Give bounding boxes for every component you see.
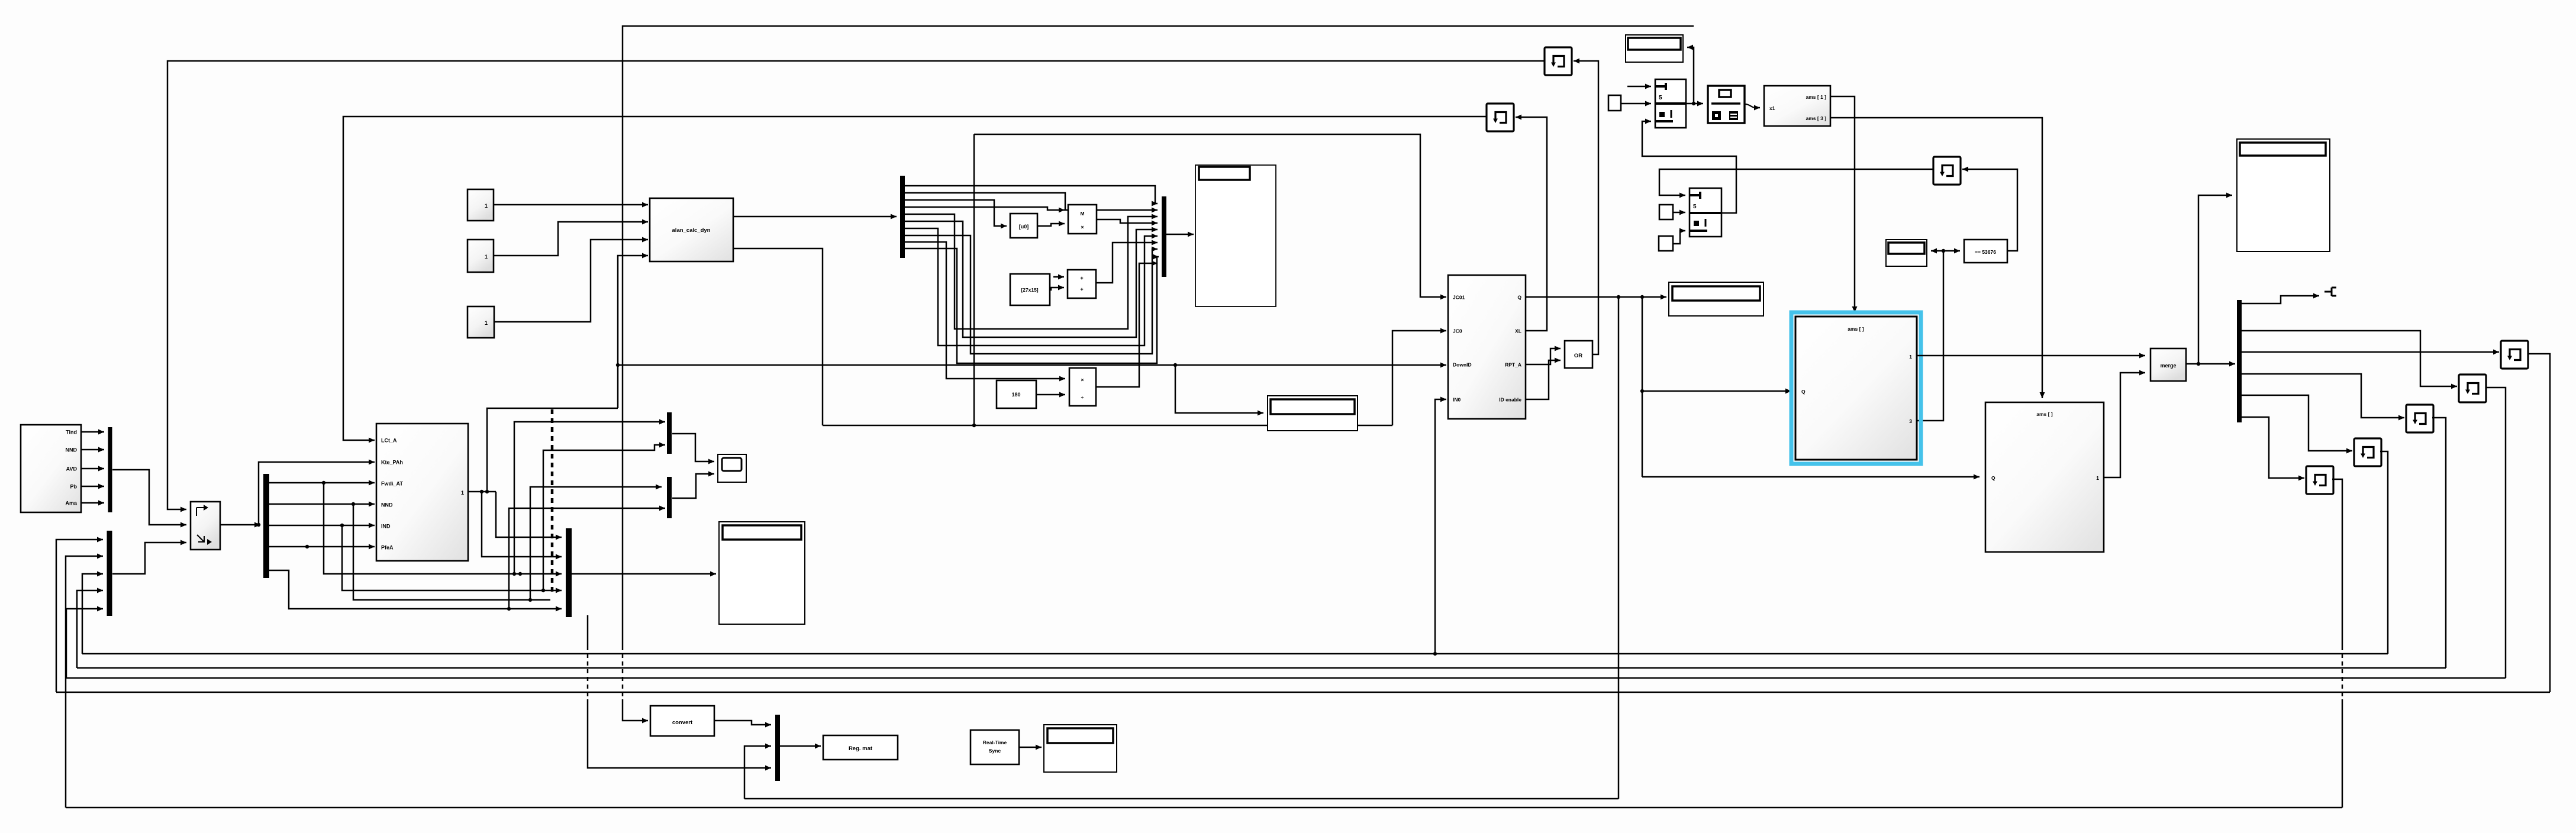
wire: row y1345 from mux3-in2 riser to Q tap at x2735 [744, 798, 1619, 800]
svg-text:RPT_A: RPT_A [1505, 362, 1521, 368]
mux M1129a [667, 412, 672, 454]
wire: [u0] output to product M in2 [1037, 224, 1065, 226]
wire: demux row9 to divide block in1 [905, 242, 1065, 379]
svg-text:M: M [1080, 211, 1084, 217]
wire: demux out4 to delay Dc [2242, 374, 2404, 418]
unit delay Z1 [1545, 47, 1572, 75]
svg-text:== 53676: == 53676 [1975, 249, 1996, 255]
wire: mux M959 output to display D6 [572, 573, 716, 575]
svg-text:DownID: DownID [1453, 362, 1472, 368]
wire: OR output up to unit delay Z1 (outer top loop) [1574, 61, 1598, 354]
wire: mux3 output to Reg.mat [780, 745, 821, 747]
wire: C1 to alan_calc_dyn input1 [494, 204, 648, 206]
wire: unit delay Z1 output left and down to selector input 1 (outer loop) [167, 61, 1545, 509]
display D1 [1626, 35, 1683, 62]
wire: mux M1129b output to scope SCP [672, 474, 714, 498]
wire: SRC port Tind to mux1 [81, 431, 104, 433]
subsystem B1 (main plant block) [376, 424, 468, 561]
unit delay De [2306, 466, 2333, 494]
wire: demux out3 to delay Da [2242, 351, 2499, 353]
wire: mux M1966 output to scope S1 [1166, 234, 1194, 235]
mux M2 [107, 531, 112, 616]
svg-text:×: × [1081, 377, 1084, 383]
mux M1129b [667, 477, 672, 518]
svg-text:Tind: Tind [66, 430, 77, 435]
wire: branch up down into display D1 right side [1687, 47, 1694, 104]
wire: tap x547 from Fwd row to mux M959 input 3 [324, 483, 562, 574]
wire: demux row6 S-route to mux M1966 in5 [905, 221, 1158, 337]
wire: CSQ1 to switch1 input 2 [1621, 103, 1651, 105]
wire: tap x2775 down to cyan Q and ams2 Q [1642, 297, 1643, 477]
wire: tap x597 from NND row to dashed bus bar [353, 504, 550, 600]
wire: Dc return to bus row y1129 [2432, 418, 2446, 668]
wire: De return to bottom row y1365 [2332, 479, 2342, 646]
wire: demux row8 S-route to mux M1966 in8 [905, 235, 1158, 354]
selector block [u0] [1010, 214, 1037, 238]
wire: SRC port AVD to mux1 [81, 468, 104, 470]
constant C1 value 1 [468, 189, 494, 221]
wire: Da return to bus row y1170 [2527, 354, 2550, 692]
svg-text:Fwd\_AT: Fwd\_AT [381, 481, 403, 487]
scope SCP (small scope icon) [718, 454, 746, 482]
svg-text:Real-Time: Real-Time [983, 740, 1007, 745]
wire: 180 to divide in2 [1036, 394, 1065, 396]
wire: riser x896 to mux M1129b input 1 [530, 487, 662, 600]
wire: compare output up to Z3 input [1962, 169, 2017, 251]
wire: alan_calc_dyn out1 to demux D1525 [733, 216, 897, 218]
wire: x1646 riser from row719 to row227 [973, 134, 975, 425]
wire: left riser x139 to mux2 input 3 [82, 574, 103, 654]
conversion block CONVERT [650, 706, 714, 736]
svg-text:[u0]: [u0] [1019, 224, 1029, 230]
sync block RTS Real-Time Sync [971, 730, 1019, 764]
switch block SW1 [1655, 79, 1686, 128]
wire: demux out6 to delay De [2242, 417, 2304, 478]
wire: bottom row y1365 from mux2-in2 riser to delay De return [66, 807, 2342, 809]
wire: demux D455 out5 down to mux M959 input 5 [269, 570, 562, 609]
svg-text:Q: Q [1517, 295, 1521, 301]
wire: demux D455 out4 to B1 PfeA input [269, 546, 375, 548]
wire: demux row7 S-route to mux M1966 in6 [905, 228, 1158, 346]
svg-text:Ama: Ama [65, 501, 78, 506]
wire: mux2 output up to selector input 3 [112, 543, 186, 574]
svg-text:180: 180 [1011, 392, 1020, 398]
svg-text:Q: Q [1801, 389, 1806, 395]
wire: sum output up to mux M1966 in7 [1096, 243, 1158, 283]
display D6 (large display window) [719, 522, 805, 624]
unit delay Z3 [1933, 157, 1961, 185]
wire: demux D455 out3 to B1 IND input [269, 525, 375, 527]
wire: CYAN out1 to merge input 1 [1917, 355, 2145, 357]
divide block DIV [1069, 368, 1096, 406]
constant C3 value 1 [468, 306, 494, 338]
wire: demux row1 to mux M1966 in1 [905, 186, 1158, 204]
wire: demux row5 S-route to mux M1966 in3 [905, 214, 1158, 329]
svg-text:ams [ 1 ]: ams [ 1 ] [1806, 94, 1827, 100]
svg-text:AVD: AVD [66, 466, 78, 472]
demux D3781 [2237, 300, 2242, 422]
wire: mux1 output down to selector input 2 [112, 470, 186, 525]
wire: merge output to demux D3781 and branch up to scope S2 [2186, 363, 2235, 365]
wire: CSQ2 to switch2 input 2 [1673, 212, 1685, 214]
compare block CMP == 53676 [1964, 240, 2007, 263]
svg-text:Q: Q [1991, 475, 1995, 481]
wire: Db return to bus row y1146 [2485, 388, 2506, 678]
wire: divide output up to mux M1966 in10 [1096, 263, 1158, 387]
wire: row 719 from alan out2 riser to JC0 riser [823, 425, 1392, 427]
wire: stub into sum in1 [1053, 276, 1064, 278]
wire: stub to switch1 input 1 [1627, 86, 1651, 88]
subsystem JK (ID state machine block) [1448, 275, 1526, 419]
svg-text:Pb: Pb [70, 484, 77, 490]
wire: AMS2 out up to merge input 2 [2104, 373, 2145, 477]
merge block MRG [2151, 348, 2186, 381]
wire: mux M1129a output to scope SCP [672, 434, 714, 461]
display D2 [1669, 282, 1763, 316]
svg-text:5: 5 [1693, 204, 1697, 210]
display D3 [1886, 240, 1927, 266]
mux M1966 [1162, 196, 1166, 277]
wire: switch2 output up to switch1 input 3 [1642, 121, 1736, 213]
svg-text:ID enable: ID enable [1499, 397, 1521, 403]
scope S2 (scope window) [2237, 139, 2330, 251]
subsystem SRC (source outport block) [21, 425, 81, 512]
demux D1525 [900, 176, 905, 258]
selector block SEL [191, 502, 220, 550]
wire: demux row2 to mux M1966 in2 [905, 193, 1158, 210]
svg-text:convert: convert [672, 719, 693, 726]
wire: Z3 output left and down to switch2 input1 [1659, 169, 1933, 195]
wire: C3 to alan_calc_dyn input3 [494, 240, 648, 322]
wire: demux D455 out1 to B1 Fwd input [269, 482, 375, 484]
subsystem SUB1 (ams splitter) [1764, 86, 1830, 126]
wire: demux out2 to delay Db [2242, 331, 2457, 386]
logic block OR [1565, 341, 1592, 368]
wire: branch into display D3 (right side input) [1931, 250, 1943, 252]
wire: unit delay Z2 output left, down to LCt_A input (inner loop) [343, 117, 1487, 440]
wire: Dd return to bus row y1105 [2380, 451, 2388, 654]
svg-text:Kte_PAh: Kte_PAh [381, 460, 403, 466]
math block M (product) [1068, 205, 1097, 234]
wire: Q output row to display D2 with taps [1526, 296, 1666, 298]
wire: product M output to mux M1966 in4 [1097, 219, 1158, 223]
svg-text:ams [ 3 ]: ams [ 3 ] [1806, 115, 1827, 121]
wire: left riser x95 to mux2 input 1 [56, 540, 103, 692]
wire: demux row3 to selector [u0] [905, 200, 1007, 226]
wire: SUB1 out2 across and down to AMS2 top input [1830, 118, 2042, 398]
wire: demux D455 out2 to B1 NND input [269, 503, 375, 505]
wire: x2353 riser up to JC0 input [1392, 331, 1446, 425]
wire: SRC port Pb to mux1 [81, 486, 104, 487]
svg-text:+: + [1080, 286, 1083, 292]
wire: ID enable to OR input 2 [1526, 360, 1561, 399]
unit delay Dd [2354, 438, 2381, 466]
sum block SUM [1068, 270, 1096, 298]
wire: branch to CYAN subsystem Q input [1642, 390, 1791, 392]
svg-text:1: 1 [485, 203, 488, 209]
constant square CSQ3 [1659, 236, 1673, 251]
subsystem alan_calc_dyn [650, 198, 733, 261]
wire: B1 output 1 net with risers [468, 491, 496, 493]
mux M3 [775, 715, 780, 781]
svg-text:3: 3 [1909, 418, 1912, 424]
unit delay Da [2501, 341, 2528, 369]
svg-text:IND: IND [381, 524, 391, 529]
wire: left riser x111 to mux2 input 2 [66, 556, 103, 808]
wire: branch into compare block [1943, 250, 1960, 252]
wire: C2 to alan_calc_dyn input2 [494, 222, 648, 256]
svg-text:ams [ ]: ams [ ] [2036, 411, 2053, 417]
wire: SRC port Ama to mux1 [81, 502, 104, 504]
svg-text:PfeA: PfeA [381, 545, 394, 551]
svg-text:1: 1 [485, 254, 488, 260]
wire: riser x1258 from row1345 to mux3 in2 [744, 746, 771, 799]
svg-text:alan_calc_dyn: alan_calc_dyn [672, 227, 711, 234]
unit delay Db [2459, 374, 2486, 402]
display D5 [1044, 725, 1117, 772]
svg-text:merge: merge [2160, 363, 2176, 369]
wire: riser x814 down to mux M959 input 2 [482, 492, 562, 557]
wire: demux row4 to product M in1 [905, 207, 1065, 210]
chart block CH1 [1708, 86, 1745, 123]
subsystem AMS2 ams[ ] [1985, 402, 2104, 552]
wire: riser x823 up to row690 joining DownID net [487, 408, 618, 492]
svg-text:OR: OR [1574, 353, 1582, 359]
wire: bus row y1146 from mux2-in5 riser to delay Db return [66, 677, 2506, 679]
wire: riser x838 down to mux M959 input 1 [496, 492, 562, 537]
dashed group bar [551, 409, 554, 594]
wire: RTS output to display D5 [1019, 747, 1042, 748]
display D4 [1268, 396, 1358, 431]
terminator TRM [2324, 288, 2336, 296]
constant 180 [997, 380, 1036, 408]
wire: riser x1044 from row690 up to alan_calc_dyn input 4 [618, 256, 648, 408]
svg-text:IN0: IN0 [1453, 397, 1461, 403]
wire: XL output up to unit delay Z2 [1516, 117, 1547, 331]
unit delay Z2 [1487, 104, 1514, 131]
wire: alan_calc_dyn out2 to x1390 riser [733, 248, 823, 425]
svg-text:XL: XL [1515, 328, 1521, 334]
wire: row 227 loop from x1646 to JC01 input [974, 134, 1446, 297]
wire: bus row y1170 from mux2-in1 riser to delay Da return [56, 692, 2550, 693]
mux M959 [566, 528, 572, 617]
constant square CSQ1 [1608, 95, 1621, 111]
wire: DownID row from riser x1044 to JK DownID [618, 364, 1446, 366]
svg-text:÷: ÷ [1081, 394, 1084, 400]
wire: left riser x130 to mux2 input 4 [77, 590, 103, 668]
constant C2 value 1 [468, 240, 494, 272]
wire: chart output squiggle to subsystem SUB1 x1 [1745, 104, 1756, 108]
svg-text:Reg. mat: Reg. mat [849, 745, 873, 752]
wire: bus row y1129 from mux2-in4 riser to delay Dc return [77, 667, 2446, 669]
wire: CYAN out3 riser up to display D3 / compare junction [1917, 251, 1943, 421]
svg-text:1: 1 [461, 490, 464, 496]
wire: [27x15] output to sum in2 [1050, 288, 1064, 290]
wire: riser x918 to mux M1129a input 2 [543, 445, 665, 590]
wire: selector output to demux D455, branch up to Kte_PAh [220, 524, 260, 526]
wire: demux out1 up to terminator [2242, 296, 2319, 304]
svg-text:NND: NND [381, 502, 393, 508]
svg-text:+: + [1080, 275, 1083, 281]
svg-text:JC0: JC0 [1453, 328, 1462, 334]
wire: convert output to mux3 input 1 [714, 721, 771, 725]
svg-text:x1: x1 [1769, 105, 1775, 111]
wire: riser x2425 from bus row to JK IN0 [1435, 399, 1446, 654]
wire: switch1 output net top row to long vertical x1052 down to convert [623, 26, 1694, 646]
demux D455 [263, 474, 269, 578]
wire: CSQ3 to switch2 input 3 [1673, 231, 1685, 244]
svg-text:1: 1 [485, 320, 488, 326]
wire: left riser x112 to mux2 input 5 [66, 609, 103, 678]
wire: riser x869 to mux M1129a input 1 [514, 422, 665, 574]
wire: SUB1 out1 down to CYAN top input [1830, 96, 1855, 312]
wire: demux out5 to delay Dd [2242, 395, 2352, 451]
svg-text:NND: NND [66, 447, 78, 453]
wire: RPT_A to OR input 1 [1526, 348, 1561, 364]
svg-text:[27x15]: [27x15] [1021, 287, 1038, 293]
to-file block REG Reg.mat [823, 735, 898, 760]
wire: row 806 to AMS2 subsystem Q input [1642, 476, 1979, 478]
svg-text:5: 5 [1659, 95, 1662, 101]
switch block SW2 [1690, 188, 1721, 237]
svg-text:JC01: JC01 [1453, 295, 1465, 301]
wire: tap x578 from IND row to mux M959 input 4 [342, 525, 562, 590]
constant square CSQ2 [1659, 205, 1673, 219]
constant [27x15] [1010, 274, 1050, 305]
selection highlight around CYAN subsystem [1791, 312, 1921, 464]
svg-text:Sync: Sync [989, 748, 1001, 754]
svg-text:1: 1 [2096, 475, 2099, 481]
svg-text:LCt_A: LCt_A [381, 438, 397, 444]
mux M1 [108, 427, 112, 512]
svg-text:×: × [1081, 224, 1084, 230]
scope S1 (scope window) [1195, 165, 1276, 306]
unit delay Dc [2406, 405, 2433, 432]
subsystem CYAN ams[ ] (selected) [1795, 317, 1917, 460]
wire: SRC port NND to mux1 [81, 449, 104, 451]
wire: riser x860 to mux M1129b input 2 [509, 508, 665, 609]
wire: branch x1986 down to Display D4 [1175, 365, 1263, 413]
wire: dashed riser x993 to mux3 input 3 [587, 615, 589, 646]
wire: bus row y1105 from mux2-in3 riser to delay Dd return [82, 653, 2388, 655]
wire: demux row10 S-route to mux M1966 in9 [905, 248, 1159, 363]
wire: switch1 output to chart block with branches [1686, 103, 1703, 105]
svg-text:1: 1 [1909, 354, 1912, 360]
wire: tap x2735 down to row1345 (to mux3) [1618, 297, 1620, 799]
svg-text:ams [ ]: ams [ ] [1848, 326, 1864, 332]
